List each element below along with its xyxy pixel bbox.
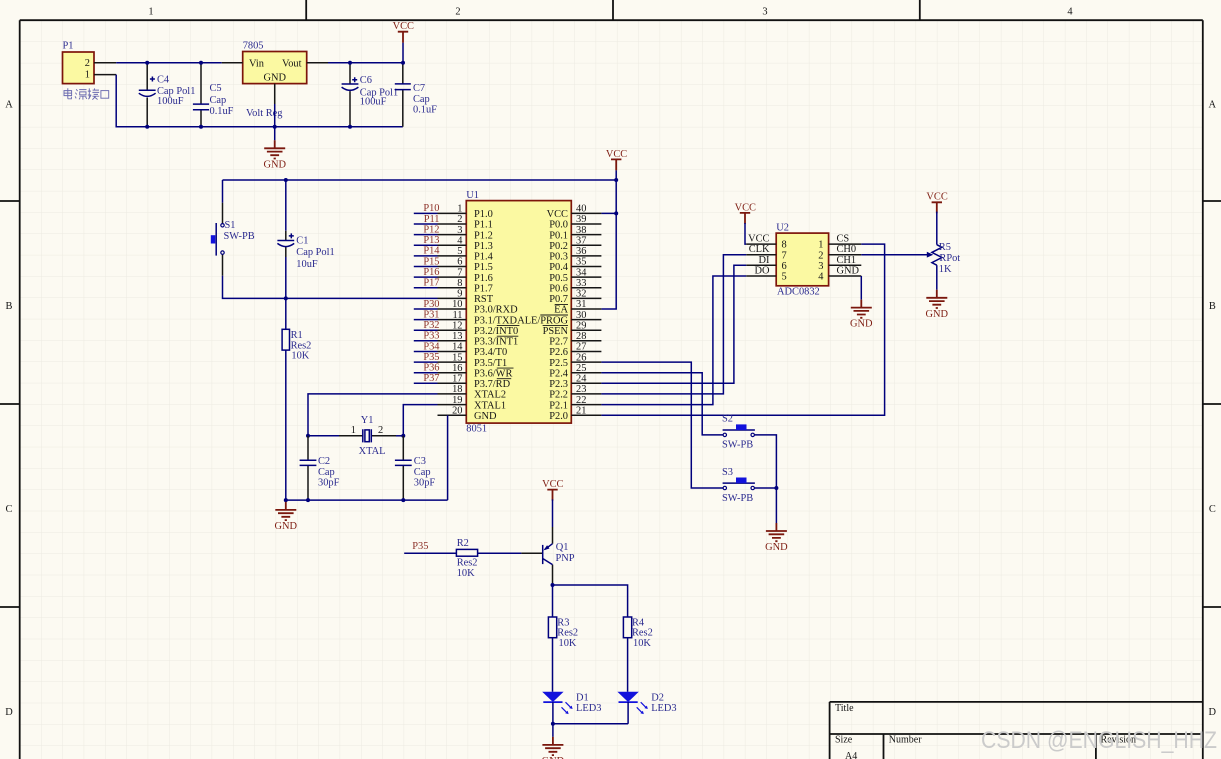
svg-text:P36: P36 bbox=[423, 363, 439, 374]
wire S2 right down to S3 right bbox=[754, 435, 776, 488]
wire XTAL2 (pin18) to crystal bbox=[308, 394, 438, 436]
svg-text:D: D bbox=[1209, 707, 1217, 718]
wire net P34 bbox=[414, 351, 438, 353]
svg-text:U1: U1 bbox=[466, 190, 479, 201]
svg-text:33: 33 bbox=[576, 278, 586, 289]
wire VCC to U2 pin8 bbox=[745, 223, 746, 244]
svg-text:PSEN: PSEN bbox=[543, 326, 569, 337]
junction bbox=[284, 296, 288, 300]
resistor R4 Res2 10K bbox=[623, 617, 652, 649]
svg-text:DI: DI bbox=[759, 255, 771, 266]
adc U2 ADC0832 bbox=[746, 223, 861, 298]
svg-text:P0.0: P0.0 bbox=[549, 220, 568, 231]
wire net P15 bbox=[414, 266, 438, 268]
svg-text:DO: DO bbox=[754, 266, 770, 277]
svg-text:P3.5/T1: P3.5/T1 bbox=[474, 358, 507, 369]
svg-text:XTAL1: XTAL1 bbox=[474, 400, 506, 411]
svg-text:D: D bbox=[5, 707, 13, 718]
svg-text:U2: U2 bbox=[776, 223, 789, 234]
svg-text:B: B bbox=[6, 301, 13, 312]
transistor Q1 PNP bbox=[521, 527, 574, 585]
svg-text:18: 18 bbox=[452, 384, 462, 395]
svg-text:Title: Title bbox=[835, 703, 854, 714]
junction bbox=[199, 61, 203, 65]
svg-text:VCC: VCC bbox=[542, 479, 563, 490]
wire U1 GND (pin20) down bbox=[447, 415, 449, 500]
svg-text:Size: Size bbox=[835, 735, 853, 746]
svg-text:39: 39 bbox=[576, 214, 586, 225]
svg-text:23: 23 bbox=[576, 384, 586, 395]
svg-text:P0.1: P0.1 bbox=[549, 230, 568, 241]
svg-text:P3.0/RXD: P3.0/RXD bbox=[474, 305, 518, 316]
svg-text:P3.3/INT1: P3.3/INT1 bbox=[474, 337, 518, 348]
svg-text:P2.1: P2.1 bbox=[549, 400, 568, 411]
svg-text:GND: GND bbox=[765, 542, 788, 553]
svg-text:100uF: 100uF bbox=[157, 96, 184, 107]
svg-text:P1.1: P1.1 bbox=[474, 220, 493, 231]
svg-text:C3: C3 bbox=[414, 456, 426, 467]
svg-text:VCC: VCC bbox=[606, 149, 627, 160]
ground GND (LEDs) bbox=[542, 737, 565, 759]
wire net P33 bbox=[414, 340, 438, 342]
svg-text:P2.4: P2.4 bbox=[549, 368, 569, 379]
capacitor C6 bbox=[342, 63, 399, 127]
wire net P25 to S3 bbox=[601, 362, 723, 488]
svg-text:P37: P37 bbox=[423, 373, 439, 384]
wire XTAL1 (pin19) to crystal bbox=[403, 405, 437, 436]
svg-text:C1: C1 bbox=[296, 236, 308, 247]
svg-text:29: 29 bbox=[576, 320, 586, 331]
svg-text:XTAL: XTAL bbox=[359, 446, 386, 457]
wire 7805 Vout to VCC bbox=[328, 62, 403, 64]
svg-text:6: 6 bbox=[782, 261, 787, 272]
svg-text:5: 5 bbox=[782, 272, 787, 283]
wire net P17 bbox=[414, 287, 438, 289]
wire P1 pin1 down and ground rail bbox=[116, 75, 403, 127]
svg-text:VCC: VCC bbox=[748, 234, 769, 245]
U1 active-low overlines (INT0,INT1,WR,RD,EA,PROG,PSEN) bbox=[497, 304, 568, 378]
svg-text:40: 40 bbox=[576, 204, 586, 215]
wire S1 to RST bbox=[223, 276, 438, 299]
svg-text:CS: CS bbox=[837, 234, 850, 245]
svg-text:EA: EA bbox=[554, 305, 568, 316]
svg-text:Res2: Res2 bbox=[457, 558, 478, 569]
svg-text:GND: GND bbox=[837, 266, 860, 277]
svg-text:GND: GND bbox=[850, 319, 873, 330]
svg-text:S2: S2 bbox=[722, 414, 733, 425]
wire S3 right bbox=[754, 487, 776, 489]
svg-text:4: 4 bbox=[818, 272, 824, 283]
svg-text:12: 12 bbox=[452, 320, 462, 331]
svg-text:P35: P35 bbox=[423, 352, 439, 363]
svg-text:P2.5: P2.5 bbox=[549, 358, 568, 369]
svg-text:P1.7: P1.7 bbox=[474, 283, 493, 294]
label 电源接口 (power connector) bbox=[64, 88, 109, 99]
svg-text:28: 28 bbox=[576, 331, 586, 342]
svg-text:Vout: Vout bbox=[282, 58, 302, 69]
svg-text:36: 36 bbox=[576, 246, 586, 257]
svg-text:19: 19 bbox=[452, 395, 462, 406]
ground GND (R5) bbox=[926, 290, 949, 320]
svg-text:P0.6: P0.6 bbox=[549, 283, 568, 294]
wire net P21 to DO bbox=[601, 276, 746, 405]
mcu U1 8051 bbox=[438, 190, 602, 435]
junction bbox=[551, 583, 555, 587]
wire net P22 to CLK bbox=[601, 255, 746, 394]
svg-text:22: 22 bbox=[576, 395, 586, 406]
junction bbox=[348, 125, 352, 129]
svg-text:14: 14 bbox=[452, 342, 463, 353]
wire R2 to Q1 base bbox=[478, 552, 522, 554]
svg-text:2: 2 bbox=[455, 6, 460, 17]
resistor R1 bbox=[282, 298, 311, 361]
svg-text:GND: GND bbox=[275, 521, 298, 532]
junction bbox=[273, 125, 277, 129]
svg-text:P2.7: P2.7 bbox=[549, 337, 568, 348]
svg-text:P14: P14 bbox=[423, 246, 440, 257]
svg-text:P0.4: P0.4 bbox=[549, 262, 569, 273]
resistor R2 Res2 10K bbox=[456, 538, 477, 579]
wire R4 to D2 bbox=[627, 638, 629, 692]
wire to bottom ground bbox=[552, 724, 554, 737]
svg-text:8: 8 bbox=[782, 240, 787, 251]
junction bbox=[551, 722, 555, 726]
svg-text:PNP: PNP bbox=[556, 553, 575, 564]
capacitor C1 bbox=[277, 180, 334, 298]
svg-text:P10: P10 bbox=[423, 203, 439, 214]
svg-text:P30: P30 bbox=[423, 299, 439, 310]
svg-text:CLK: CLK bbox=[749, 244, 770, 255]
svg-text:VCC: VCC bbox=[735, 202, 756, 213]
svg-text:37: 37 bbox=[576, 236, 586, 247]
capacitor C3 bbox=[395, 436, 435, 500]
svg-text:20: 20 bbox=[452, 405, 462, 416]
junction bbox=[401, 61, 405, 65]
junction bbox=[306, 498, 310, 502]
svg-text:Volt Reg: Volt Reg bbox=[246, 108, 282, 119]
svg-text:GND: GND bbox=[926, 309, 949, 320]
wire crystal ground rail bbox=[286, 499, 448, 501]
capacitor C5 bbox=[193, 63, 234, 127]
svg-text:D1: D1 bbox=[576, 692, 589, 703]
svg-text:P2.3: P2.3 bbox=[549, 379, 568, 390]
svg-text:C6: C6 bbox=[360, 75, 372, 86]
svg-text:P31: P31 bbox=[423, 309, 439, 320]
junction bbox=[284, 178, 288, 182]
junction bbox=[145, 61, 149, 65]
wire net P31 bbox=[414, 319, 438, 321]
svg-text:13: 13 bbox=[452, 331, 462, 342]
junction bbox=[284, 498, 288, 502]
wire crystal right node bbox=[396, 435, 403, 437]
junction bbox=[614, 211, 618, 215]
svg-text:16: 16 bbox=[452, 363, 462, 374]
svg-text:32: 32 bbox=[576, 289, 586, 300]
svg-text:2: 2 bbox=[457, 214, 462, 225]
svg-text:1: 1 bbox=[351, 425, 356, 436]
svg-text:P3.4/T0: P3.4/T0 bbox=[474, 347, 507, 358]
svg-text:P0.2: P0.2 bbox=[549, 241, 568, 252]
svg-text:2: 2 bbox=[378, 425, 383, 436]
power VCC (supply output) bbox=[393, 21, 414, 43]
svg-text:2: 2 bbox=[818, 250, 823, 261]
svg-text:P3.1/TXD: P3.1/TXD bbox=[474, 315, 518, 326]
wire S1 to VCC rail bbox=[222, 180, 224, 203]
crystal Y1 XTAL bbox=[339, 415, 396, 457]
wire net P11 bbox=[414, 223, 438, 225]
svg-text:31: 31 bbox=[576, 299, 586, 310]
svg-text:Number: Number bbox=[889, 735, 922, 746]
svg-text:30: 30 bbox=[576, 310, 586, 321]
svg-text:C7: C7 bbox=[413, 83, 425, 94]
svg-text:2: 2 bbox=[85, 58, 90, 69]
svg-text:A: A bbox=[1209, 100, 1217, 111]
led D2 LED3 bbox=[617, 692, 676, 724]
power VCC (U1) bbox=[606, 149, 627, 171]
svg-text:11: 11 bbox=[452, 310, 462, 321]
svg-text:P2.0: P2.0 bbox=[549, 411, 568, 422]
svg-text:26: 26 bbox=[576, 352, 586, 363]
wire U2 GND pin4 down bbox=[860, 276, 862, 300]
svg-text:C2: C2 bbox=[318, 456, 330, 467]
ground GND (regulator) bbox=[263, 140, 286, 170]
svg-text:Cap: Cap bbox=[318, 467, 335, 478]
svg-text:C: C bbox=[6, 504, 13, 515]
svg-text:CH0: CH0 bbox=[837, 244, 857, 255]
svg-text:GND: GND bbox=[263, 159, 286, 170]
power VCC (U2) bbox=[735, 202, 756, 224]
wire net P14 bbox=[414, 255, 438, 257]
svg-text:P33: P33 bbox=[423, 331, 439, 342]
wire net P32 bbox=[414, 329, 438, 331]
svg-text:VCC: VCC bbox=[926, 192, 947, 203]
title block bbox=[830, 702, 1203, 759]
svg-text:1: 1 bbox=[457, 204, 462, 215]
svg-text:GND: GND bbox=[263, 72, 286, 83]
svg-text:6: 6 bbox=[457, 257, 462, 268]
wire crystal left node bbox=[308, 435, 339, 437]
wire P1 pin2 to 7805 Vin bbox=[116, 62, 222, 64]
svg-text:10K: 10K bbox=[291, 350, 309, 361]
svg-text:100uF: 100uF bbox=[360, 97, 387, 108]
ground GND (U2) bbox=[850, 300, 873, 330]
capacitor C4 bbox=[139, 63, 196, 127]
svg-text:P12: P12 bbox=[423, 224, 439, 235]
wire net P36 bbox=[414, 372, 438, 374]
svg-text:R1: R1 bbox=[291, 330, 303, 341]
U1 pin names bbox=[474, 209, 569, 422]
svg-text:S1: S1 bbox=[225, 220, 236, 231]
svg-text:7805: 7805 bbox=[243, 40, 264, 51]
svg-text:RST: RST bbox=[474, 294, 494, 305]
svg-text:CH1: CH1 bbox=[837, 255, 857, 266]
svg-text:P17: P17 bbox=[423, 278, 439, 289]
svg-text:ADC0832: ADC0832 bbox=[777, 287, 820, 298]
svg-text:5: 5 bbox=[457, 246, 462, 257]
svg-text:D2: D2 bbox=[651, 692, 664, 703]
svg-text:B: B bbox=[1209, 301, 1216, 312]
svg-text:1: 1 bbox=[148, 6, 153, 17]
svg-text:7: 7 bbox=[457, 267, 462, 278]
svg-text:VCC: VCC bbox=[393, 21, 414, 32]
svg-text:34: 34 bbox=[576, 267, 587, 278]
switch S2 SW-PB bbox=[722, 414, 755, 451]
svg-text:P11: P11 bbox=[424, 214, 440, 225]
svg-text:P0.7: P0.7 bbox=[549, 294, 568, 305]
svg-text:A: A bbox=[5, 100, 13, 111]
wire VCC to Q1 emitter bbox=[552, 499, 554, 527]
wire collector node to R4 bbox=[553, 585, 628, 617]
svg-text:38: 38 bbox=[576, 225, 586, 236]
wire R3 to D1 bbox=[552, 638, 554, 692]
svg-text:30pF: 30pF bbox=[414, 477, 436, 488]
svg-text:A4: A4 bbox=[845, 751, 857, 759]
svg-text:CSDN @ENGLISH_HHZ: CSDN @ENGLISH_HHZ bbox=[981, 727, 1217, 754]
U1 pin numbers 1-20 (left) and 40-21 (right) bbox=[452, 204, 587, 417]
svg-text:35: 35 bbox=[576, 257, 586, 268]
wire net P10 bbox=[414, 212, 438, 214]
junction bbox=[774, 486, 778, 490]
svg-text:3: 3 bbox=[457, 225, 462, 236]
wire VCC rail to U1 pin40 and EA bbox=[223, 170, 617, 309]
wire net P37 bbox=[414, 382, 438, 384]
svg-text:15: 15 bbox=[452, 352, 462, 363]
wire net P13 bbox=[414, 244, 438, 246]
svg-text:3: 3 bbox=[762, 6, 767, 17]
svg-text:9: 9 bbox=[457, 289, 462, 300]
power VCC (Q1) bbox=[542, 479, 563, 501]
svg-text:24: 24 bbox=[576, 374, 587, 385]
svg-text:ALE/PROG: ALE/PROG bbox=[517, 315, 568, 326]
svg-text:30pF: 30pF bbox=[318, 477, 340, 488]
potentiometer R5 RPot 1K bbox=[932, 212, 960, 290]
svg-text:P2.6: P2.6 bbox=[549, 347, 568, 358]
ground GND (reset/crystal) bbox=[285, 500, 287, 502]
wire net P24 to S2 bbox=[601, 373, 723, 435]
svg-text:SW-PB: SW-PB bbox=[224, 231, 255, 242]
svg-text:C4: C4 bbox=[157, 75, 170, 86]
svg-text:10K: 10K bbox=[559, 638, 577, 649]
svg-text:1: 1 bbox=[818, 240, 823, 251]
power VCC (R5) bbox=[926, 192, 947, 214]
svg-text:C: C bbox=[1209, 504, 1216, 515]
junction bbox=[401, 434, 405, 438]
junction bbox=[401, 498, 405, 502]
connector P1 bbox=[63, 40, 117, 83]
svg-text:Vin: Vin bbox=[249, 58, 265, 69]
svg-text:P1.0: P1.0 bbox=[474, 209, 493, 220]
svg-text:LED3: LED3 bbox=[576, 703, 601, 714]
svg-text:C5: C5 bbox=[210, 83, 222, 94]
resistor R3 Res2 10K bbox=[548, 617, 578, 649]
svg-text:R5: R5 bbox=[939, 242, 951, 253]
svg-text:P15: P15 bbox=[423, 256, 439, 267]
svg-text:P16: P16 bbox=[423, 267, 439, 278]
svg-text:P0.5: P0.5 bbox=[549, 273, 568, 284]
svg-text:0.1uF: 0.1uF bbox=[210, 106, 234, 117]
ground GND (switches) bbox=[765, 523, 788, 553]
junction bbox=[614, 178, 618, 182]
svg-text:21: 21 bbox=[576, 405, 586, 416]
svg-text:P2.2: P2.2 bbox=[549, 390, 568, 401]
svg-text:Cap: Cap bbox=[413, 94, 430, 105]
svg-text:SW-PB: SW-PB bbox=[722, 493, 753, 504]
svg-text:10uF: 10uF bbox=[296, 259, 318, 270]
svg-text:R2: R2 bbox=[457, 538, 469, 549]
svg-text:10K: 10K bbox=[633, 638, 651, 649]
svg-text:SW-PB: SW-PB bbox=[722, 440, 753, 451]
capacitor C2 bbox=[300, 436, 340, 500]
svg-text:Cap Pol1: Cap Pol1 bbox=[296, 247, 334, 258]
svg-text:P3.2/INT0: P3.2/INT0 bbox=[474, 326, 518, 337]
svg-text:Cap: Cap bbox=[414, 467, 431, 478]
voltage regulator 7805 bbox=[222, 40, 328, 119]
svg-text:Y1: Y1 bbox=[361, 415, 374, 426]
svg-text:P13: P13 bbox=[423, 235, 439, 246]
junction bbox=[199, 125, 203, 129]
junction bbox=[145, 125, 149, 129]
wire P35 to R2 bbox=[404, 552, 456, 554]
svg-text:P1.6: P1.6 bbox=[474, 273, 493, 284]
wire 7805 GND to ground bbox=[274, 104, 276, 140]
wire net P16 bbox=[414, 276, 438, 278]
junction bbox=[306, 434, 310, 438]
switch S1 bbox=[211, 203, 255, 276]
wire collector node to R3 bbox=[552, 585, 554, 617]
svg-text:1K: 1K bbox=[939, 264, 952, 275]
svg-text:8: 8 bbox=[457, 278, 462, 289]
svg-text:27: 27 bbox=[576, 342, 586, 353]
wire net P35 bbox=[414, 361, 438, 363]
wire net P20 to CS bbox=[601, 244, 884, 415]
svg-text:4: 4 bbox=[1067, 6, 1073, 17]
svg-text:P1: P1 bbox=[63, 40, 74, 51]
svg-text:0.1uF: 0.1uF bbox=[413, 104, 437, 115]
wire VCC stem bbox=[402, 43, 404, 63]
svg-text:P1.4: P1.4 bbox=[474, 252, 494, 263]
svg-text:VCC: VCC bbox=[547, 209, 568, 220]
wire LED cathode rail bbox=[553, 723, 628, 725]
wire net P30 bbox=[414, 308, 438, 310]
svg-text:P3.7/RD: P3.7/RD bbox=[474, 379, 511, 390]
svg-text:10K: 10K bbox=[457, 568, 475, 579]
svg-text:7: 7 bbox=[782, 250, 787, 261]
svg-text:25: 25 bbox=[576, 363, 586, 374]
svg-text:P34: P34 bbox=[423, 341, 440, 352]
svg-text:8051: 8051 bbox=[466, 424, 487, 435]
svg-text:S3: S3 bbox=[722, 467, 733, 478]
svg-text:RPot: RPot bbox=[939, 253, 960, 264]
capacitor C7 bbox=[395, 63, 437, 127]
svg-text:XTAL2: XTAL2 bbox=[474, 390, 506, 401]
svg-text:P1.2: P1.2 bbox=[474, 230, 493, 241]
svg-text:P35: P35 bbox=[412, 541, 428, 552]
wire R1 to ground rail bbox=[285, 350, 287, 500]
junction bbox=[348, 61, 352, 65]
wire CH0 to R5 wiper bbox=[861, 254, 927, 256]
wire net P23 to DI bbox=[601, 265, 746, 383]
svg-text:10: 10 bbox=[452, 299, 462, 310]
led D1 LED3 bbox=[542, 692, 601, 724]
svg-text:17: 17 bbox=[452, 374, 462, 385]
svg-text:Cap: Cap bbox=[210, 95, 227, 106]
wire switches to ground bbox=[775, 488, 777, 523]
svg-text:P0.3: P0.3 bbox=[549, 252, 568, 263]
svg-text:GND: GND bbox=[474, 411, 497, 422]
wire net P12 bbox=[414, 234, 438, 236]
svg-text:Q1: Q1 bbox=[556, 542, 569, 553]
svg-text:P32: P32 bbox=[423, 320, 439, 331]
